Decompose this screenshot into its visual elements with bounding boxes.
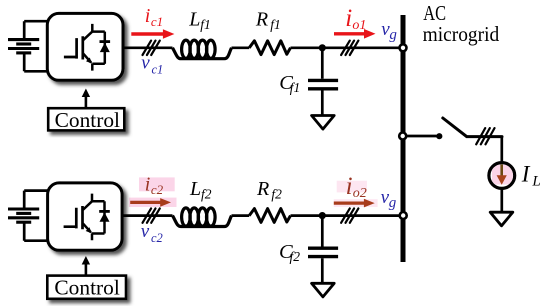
svg-text:v: v bbox=[141, 221, 150, 242]
svg-text:f2: f2 bbox=[271, 187, 282, 202]
svg-text:f1: f1 bbox=[290, 80, 301, 95]
svg-text:R: R bbox=[256, 178, 269, 200]
svg-text:i: i bbox=[346, 173, 353, 200]
svg-text:microgrid: microgrid bbox=[423, 22, 500, 46]
svg-text:o2: o2 bbox=[353, 186, 367, 201]
svg-text:c2: c2 bbox=[151, 231, 163, 245]
svg-text:f1: f1 bbox=[270, 17, 281, 32]
svg-text:f1: f1 bbox=[200, 17, 211, 32]
svg-text:I: I bbox=[521, 162, 531, 187]
svg-text:g: g bbox=[389, 195, 397, 211]
svg-text:i: i bbox=[145, 5, 151, 27]
svg-text:f2: f2 bbox=[201, 187, 212, 202]
svg-text:i: i bbox=[345, 5, 352, 32]
svg-text:i: i bbox=[145, 173, 151, 195]
svg-text:L: L bbox=[531, 174, 540, 190]
svg-text:L: L bbox=[188, 9, 200, 31]
svg-text:Control: Control bbox=[55, 108, 121, 132]
svg-text:c1: c1 bbox=[151, 14, 163, 29]
svg-text:g: g bbox=[389, 27, 397, 43]
svg-text:c1: c1 bbox=[152, 63, 164, 77]
svg-text:L: L bbox=[189, 178, 201, 200]
svg-text:R: R bbox=[255, 9, 268, 31]
svg-text:v: v bbox=[141, 53, 150, 74]
svg-text:Control: Control bbox=[54, 275, 120, 299]
svg-text:o1: o1 bbox=[352, 18, 366, 33]
svg-text:f2: f2 bbox=[290, 249, 301, 264]
svg-text:c2: c2 bbox=[151, 182, 164, 197]
